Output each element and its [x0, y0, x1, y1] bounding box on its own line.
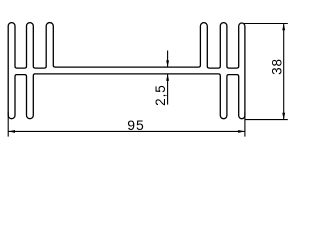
dimension line 38 [283, 24, 285, 120]
arrow right (95) [238, 130, 245, 133]
arrow up (38) [282, 24, 285, 31]
svg-text:38: 38 [270, 58, 285, 75]
leader below web (2,5 dim) [167, 74, 169, 105]
extension line right (95 dim) [244, 112, 246, 137]
svg-text:95: 95 [127, 117, 145, 133]
dimension line 95 [8, 130, 245, 132]
extension line top (38 dim) [244, 23, 288, 25]
svg-text:2,5: 2,5 [153, 84, 168, 105]
arrow left (95) [8, 130, 15, 133]
heatsink profile outline [8, 23, 245, 119]
arrow up to web bottom (2,5) [166, 74, 169, 81]
extension line left (95 dim) [7, 112, 9, 137]
arrow down (38) [282, 113, 285, 120]
arrow down to web top (2,5) [166, 60, 169, 67]
leader above web (2,5 dim) [167, 51, 169, 67]
extension line bottom (38 dim) [245, 119, 288, 121]
